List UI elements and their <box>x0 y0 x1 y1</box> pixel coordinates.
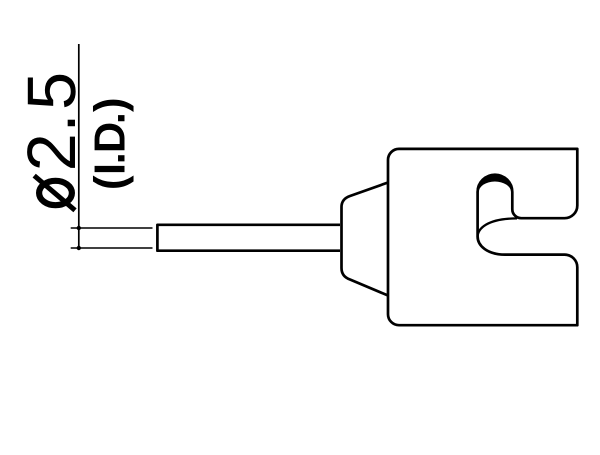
dimension text letter I <box>95 166 125 172</box>
outlet pipe elbow crease <box>478 218 517 237</box>
dimension text letter D <box>95 124 125 151</box>
dimension text paren open <box>93 176 134 188</box>
dimension text period <box>68 120 75 127</box>
dimension text period 1 <box>118 155 124 161</box>
outlet pipe dome thick cap <box>476 174 513 193</box>
dimension text digit 5 <box>28 75 76 108</box>
dimension dot lower <box>77 246 81 250</box>
dimension dot upper <box>77 226 81 230</box>
dimension text digit 2 <box>27 137 75 168</box>
leader line lower <box>71 247 153 249</box>
diameter symbol Ø ellipse <box>39 181 72 205</box>
extension line vertical <box>78 44 80 248</box>
nozzle cone <box>342 183 389 296</box>
dimension text period 2 <box>118 115 124 121</box>
diameter symbol Ø slash <box>34 176 75 211</box>
nozzle tube <box>157 225 340 251</box>
nozzle body outline with outlet slot <box>388 149 577 325</box>
leader line upper <box>71 227 153 229</box>
dimension text paren close <box>93 100 134 112</box>
